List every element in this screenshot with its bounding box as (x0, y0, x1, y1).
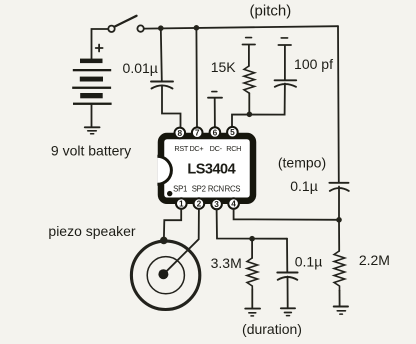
capacitor C4 0.1u tempo (329, 183, 348, 220)
wire rail to pin 7 (195, 28, 198, 128)
svg-text:0.01µ: 0.01µ (123, 60, 158, 76)
svg-text:(tempo): (tempo) (278, 154, 326, 170)
svg-text:6: 6 (213, 128, 218, 138)
wire pin 2 to speaker center (164, 209, 199, 274)
svg-text:DC+: DC+ (189, 144, 203, 153)
svg-text:15K: 15K (211, 59, 237, 75)
svg-text:100 pf: 100 pf (294, 56, 333, 72)
svg-text:DC-: DC- (210, 144, 223, 153)
svg-text:RCS: RCS (225, 184, 241, 193)
rail symbol pin 6 (208, 92, 222, 98)
pin 8 (175, 128, 186, 139)
resistor R2 3.3M (247, 239, 258, 309)
wire pin 5 to C2 (232, 84, 285, 128)
ground C3 (281, 308, 295, 315)
node junction rail to pin7 (194, 25, 200, 31)
rail symbol 100pf top (278, 38, 291, 45)
pin 4 (228, 198, 239, 209)
svg-text:9 volt battery: 9 volt battery (51, 143, 131, 159)
pin 2 (194, 198, 205, 209)
svg-text:2.2M: 2.2M (359, 252, 390, 268)
svg-text:piezo speaker: piezo speaker (48, 223, 136, 239)
wire C1 to pin 8 (162, 86, 181, 128)
svg-text:LS3404: LS3404 (187, 161, 235, 177)
svg-text:SP2: SP2 (192, 184, 206, 193)
svg-text:8: 8 (177, 128, 182, 138)
svg-text:RCN: RCN (208, 184, 224, 193)
wire battery minus to ground (91, 105, 93, 127)
wire pin 6 to rail stub (214, 99, 216, 128)
pin 7 (192, 127, 203, 138)
wire pin 1 to speaker top (164, 209, 181, 239)
svg-text:3: 3 (214, 199, 219, 209)
resistor R3 2.2M (334, 220, 345, 306)
pin 3 (211, 199, 222, 210)
svg-text:3.3M: 3.3M (211, 255, 242, 271)
svg-text:1: 1 (179, 199, 184, 209)
node junction 3.3M (249, 236, 255, 242)
node junction rail to 0.01u (158, 25, 164, 31)
node junction R1 to pin5 wire (247, 112, 253, 118)
wire battery plus to switch (92, 29, 109, 59)
svg-text:7: 7 (195, 128, 200, 138)
battery B1 9V (72, 45, 111, 105)
IC pin1 dot (167, 191, 172, 196)
ground R2 (245, 309, 260, 316)
svg-text:0.1µ: 0.1µ (295, 254, 323, 270)
node junction right (336, 217, 342, 223)
IC notch (157, 155, 172, 186)
wire top supply rail (144, 26, 338, 28)
rail symbol 15K top (243, 38, 256, 45)
svg-text:SP1: SP1 (173, 184, 187, 193)
resistor R1 15K (244, 45, 255, 114)
svg-text:0.1µ: 0.1µ (290, 178, 318, 194)
ground R3 (334, 307, 348, 315)
capacitor C2 100pf (275, 46, 297, 87)
wire right vertical from rail to tempo cap (337, 26, 340, 183)
pin 5 (227, 127, 238, 138)
ground battery (85, 127, 100, 133)
svg-text:4: 4 (231, 199, 236, 209)
svg-text:RST: RST (174, 144, 189, 153)
svg-text:RCH: RCH (226, 144, 241, 153)
svg-text:5: 5 (230, 127, 235, 137)
capacitor C3 0.1u duration (277, 239, 297, 309)
switch S1 (108, 16, 144, 32)
wire pin 4 to right junction (234, 209, 339, 220)
wire pin 3 to junction (217, 209, 287, 239)
IC U1 LS3404 body (161, 136, 253, 201)
svg-text:(pitch): (pitch) (250, 2, 292, 19)
capacitor C1 0.01u (151, 82, 173, 89)
svg-text:(duration): (duration) (242, 321, 302, 337)
speaker LS1 piezo (131, 241, 199, 309)
svg-text:2: 2 (197, 199, 202, 209)
pin 1 (176, 198, 187, 209)
node speaker top junction (160, 237, 168, 245)
wire rail to capacitor C1 (161, 28, 162, 80)
pin 6 (210, 127, 221, 138)
